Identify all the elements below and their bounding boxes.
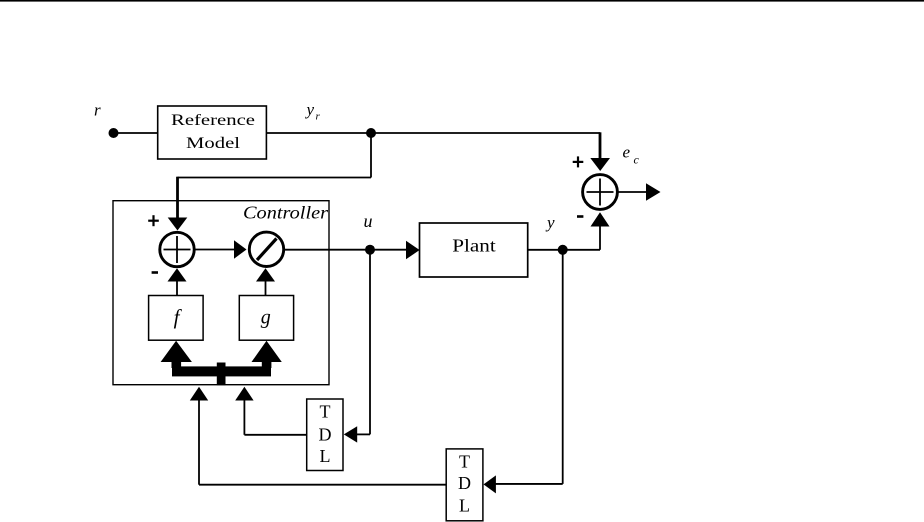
block TDL1	[307, 399, 343, 471]
junction dot y	[558, 245, 568, 255]
arrowhead into multiplier bottom	[256, 268, 275, 281]
arrowhead into plant	[406, 241, 420, 260]
node r dot	[109, 128, 119, 138]
wire y_r feedback left	[178, 177, 372, 179]
block TDL2	[446, 449, 483, 521]
block Plant	[420, 223, 528, 277]
svg-text:Plant: Plant	[452, 236, 496, 256]
svg-text:D: D	[319, 425, 332, 445]
wire y feedback horizontal	[496, 483, 563, 485]
wire y up into ec sum	[599, 227, 601, 250]
block f	[149, 296, 204, 341]
arrowhead into sum bottom	[168, 268, 187, 281]
summing junction S1	[160, 232, 194, 266]
svg-text:T: T	[459, 452, 470, 472]
wire multiplier to plant	[284, 249, 408, 251]
svg-text:Model: Model	[186, 135, 241, 152]
multiplier junction S2	[249, 232, 283, 266]
arrowhead ec output	[646, 183, 661, 200]
block Controller container	[113, 201, 329, 385]
svg-text:Controller: Controller	[243, 203, 329, 223]
plus sign at sum input	[148, 215, 159, 226]
svg-text:D: D	[458, 473, 471, 493]
thick stem to g	[262, 360, 272, 368]
arrowhead into ec sum top	[590, 158, 610, 171]
svg-text:L: L	[459, 496, 470, 516]
arrowhead into sum top	[168, 218, 188, 231]
wire weight update right vertical	[243, 400, 245, 435]
arrowhead weight update right	[235, 387, 253, 401]
junction dot y_r	[366, 128, 376, 138]
wire ec output	[618, 191, 648, 193]
plus sign at ec input	[573, 156, 584, 167]
svg-text:g: g	[261, 307, 271, 329]
wire plant to ec corner	[528, 249, 600, 251]
arrowhead into g (thick)	[252, 341, 282, 362]
wire y_r feedback down	[370, 133, 372, 178]
svg-text:u: u	[364, 211, 373, 231]
block g	[239, 296, 293, 341]
minus sign at ec input	[577, 215, 583, 218]
wire y_r down into ec sum (thick)	[599, 132, 602, 158]
wire f to sum	[176, 281, 178, 296]
arrowhead into TDL2	[484, 475, 496, 493]
wire y feedback vertical	[562, 250, 564, 484]
svg-text:y: y	[545, 213, 555, 232]
svg-text:T: T	[320, 402, 331, 422]
wire u feedback horizontal	[357, 433, 371, 435]
wire weight update left vertical	[198, 400, 200, 485]
top horizontal rule	[0, 0, 924, 2]
thick stub below bar	[217, 363, 226, 386]
junction dot u	[365, 245, 375, 255]
wire y_r to ec sum corner	[266, 132, 600, 134]
arrowhead into f (thick)	[161, 341, 192, 362]
summing junction S3 ec	[583, 175, 618, 210]
block Reference Model	[158, 106, 267, 159]
arrowhead into TDL1	[344, 426, 357, 442]
svg-text:Reference: Reference	[171, 112, 255, 129]
wire y_r feedback into sum (thick)	[176, 177, 179, 218]
wire sum to multiplier	[194, 249, 235, 251]
wire r to Reference Model	[113, 132, 158, 134]
arrowhead weight update left	[190, 387, 208, 401]
arrowhead into multiplier	[234, 240, 247, 258]
svg-text:r: r	[94, 101, 101, 120]
svg-text:L: L	[320, 446, 331, 466]
thick bus bar	[172, 366, 271, 376]
wire g to multiplier	[265, 281, 267, 296]
wire TDL1 output to arrow	[244, 434, 306, 436]
minus sign at sum input	[152, 271, 158, 274]
wire TDL2 output	[199, 484, 446, 486]
wire u feedback vertical	[369, 250, 371, 435]
thick stem to f	[172, 360, 182, 368]
arrowhead into ec sum bottom	[591, 212, 610, 226]
